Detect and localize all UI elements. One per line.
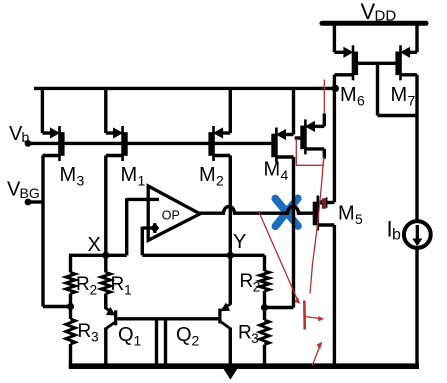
svg-text:R: R xyxy=(111,274,125,295)
label R2 right xyxy=(240,271,261,295)
wire R2-R3 left junction xyxy=(43,305,71,308)
svg-text:2: 2 xyxy=(253,280,261,295)
wire base ground vertical 1 xyxy=(155,319,158,368)
wire Y horizontal xyxy=(142,254,264,257)
label Q1 xyxy=(118,324,142,349)
wire right junction horizontal xyxy=(265,306,294,309)
wire M4 drain vertical xyxy=(292,157,295,308)
wire gate tie horizontal xyxy=(378,114,418,117)
transistor M7 xyxy=(397,45,417,80)
node Y dot xyxy=(227,252,234,259)
resistor R3 (left) xyxy=(66,319,75,344)
transistor Q1 xyxy=(106,294,116,368)
wire M1 source stub xyxy=(104,88,107,133)
svg-text:4: 4 xyxy=(281,167,289,183)
wire Vb gate rail xyxy=(28,142,275,145)
wire R1 top lead xyxy=(104,255,107,272)
VDD label xyxy=(361,0,397,25)
label X xyxy=(88,234,101,256)
wire R3 left bottom lead xyxy=(69,344,72,368)
current source Ib xyxy=(404,221,431,248)
transistor M2 xyxy=(210,126,230,161)
svg-text:OP: OP xyxy=(162,209,180,223)
red annotation: long line through M5 xyxy=(310,157,324,294)
wire R3 right top lead xyxy=(263,308,266,321)
resistor R3 (right) xyxy=(260,320,269,345)
wire cascode source stub xyxy=(323,149,326,159)
label Y xyxy=(233,231,246,253)
node right junction dot xyxy=(261,304,268,311)
node Vb terminal dot xyxy=(25,140,32,147)
label M1 xyxy=(121,164,146,189)
wire gate tie vertical xyxy=(376,63,379,115)
wire M7 drain down to Ib xyxy=(415,75,418,222)
svg-text:3: 3 xyxy=(91,330,99,345)
svg-text:1: 1 xyxy=(134,333,142,349)
wire M1 drain vertical xyxy=(104,156,107,256)
blue X deletion mark xyxy=(275,198,298,226)
wire base ground vertical 2 xyxy=(164,319,167,368)
wire R2 left bottom lead xyxy=(69,294,72,307)
svg-text:R: R xyxy=(238,323,252,344)
label Vb xyxy=(9,123,30,145)
label Ib xyxy=(387,217,402,244)
svg-text:Q: Q xyxy=(118,324,134,346)
wire op-amp output segment 2 with hop xyxy=(271,206,315,213)
wire M7 source stub xyxy=(415,23,418,52)
wire plus input vertical xyxy=(141,227,144,256)
svg-text:M: M xyxy=(264,159,281,181)
node left junction dot xyxy=(67,303,74,310)
label OP xyxy=(162,209,180,223)
label Q2 xyxy=(176,324,200,349)
wire top rail xyxy=(34,87,335,90)
svg-text:R: R xyxy=(76,274,90,295)
svg-text:3: 3 xyxy=(77,173,85,189)
op-amp plus mark xyxy=(150,223,159,233)
svg-text:M: M xyxy=(121,164,138,186)
transistor M4 xyxy=(273,128,293,163)
label VBG xyxy=(7,179,40,202)
wire cascode gate stub xyxy=(295,136,303,139)
resistor R1 xyxy=(101,273,110,294)
wire R2 left top lead xyxy=(69,255,72,272)
red-black overlap blob at M5 source arrow xyxy=(322,198,326,208)
wire X to op-amp vertical xyxy=(125,198,128,255)
transistor M5 xyxy=(315,196,335,231)
node M6 drain junction dot xyxy=(332,85,339,92)
transistor cascode xyxy=(302,119,324,154)
resistor R2 (right) xyxy=(260,271,269,291)
wire M2 drain vertical xyxy=(229,156,232,256)
svg-text:2: 2 xyxy=(192,333,200,349)
wire VBG lead xyxy=(28,200,43,203)
svg-text:X: X xyxy=(88,234,101,256)
svg-text:7: 7 xyxy=(408,93,416,109)
svg-text:V: V xyxy=(361,0,376,24)
wire Ib to ground rail xyxy=(415,248,418,366)
wire M6 drain xyxy=(333,75,336,202)
wire R2 right bottom lead xyxy=(263,291,266,308)
wire R3 left top lead xyxy=(69,307,72,320)
label R3 right xyxy=(238,323,259,347)
label M5 xyxy=(338,203,363,228)
wire M3 source stub xyxy=(41,88,44,133)
svg-text:M: M xyxy=(391,84,408,106)
wire X horizontal xyxy=(69,254,127,257)
red annotation: sketched BJT base bar xyxy=(303,301,306,330)
label R3 left xyxy=(78,321,99,345)
transistor M6 xyxy=(334,45,356,80)
node X dot xyxy=(102,252,109,259)
label M4 xyxy=(264,159,289,184)
svg-text:M: M xyxy=(340,84,357,106)
ground symbol xyxy=(223,369,237,380)
red annotation: sketched BJT emitter arrow xyxy=(305,316,324,321)
wire R1 bottom lead xyxy=(104,294,107,310)
wire op-amp inverting input (minus) xyxy=(127,198,159,201)
wire M4 source stub xyxy=(292,88,295,134)
label M3 xyxy=(60,164,85,189)
wire R3 right bottom lead xyxy=(263,345,266,369)
VDD rail xyxy=(322,21,426,26)
svg-text:R: R xyxy=(78,321,92,342)
svg-text:M: M xyxy=(60,164,77,186)
wire M6 source stub xyxy=(333,23,336,52)
svg-text:2: 2 xyxy=(216,173,224,189)
red annotation: cascode diode connection xyxy=(296,139,324,166)
wire Q1-Q2 base line xyxy=(117,317,218,320)
op-amp OP triangle xyxy=(148,186,200,240)
transistor M1 xyxy=(106,126,126,161)
svg-text:2: 2 xyxy=(90,283,98,298)
svg-text:3: 3 xyxy=(251,331,259,346)
wire ground rail xyxy=(69,363,419,369)
label M2 xyxy=(199,164,224,189)
svg-text:Y: Y xyxy=(233,231,246,253)
svg-text:Q: Q xyxy=(176,324,192,346)
wire M3 drain / VBG vertical xyxy=(41,156,44,307)
wire M5 source down xyxy=(333,225,336,366)
wire op-amp output segment 1 xyxy=(200,206,272,213)
svg-text:M: M xyxy=(199,164,216,186)
red annotation: cascode drain to mirror node xyxy=(323,80,325,114)
transistor Q2 xyxy=(220,255,230,368)
label M7 xyxy=(391,84,416,109)
wire cascode drain stub xyxy=(323,114,326,127)
label M6 xyxy=(340,84,365,109)
node VBG terminal dot xyxy=(25,199,32,206)
wire R2 right top lead xyxy=(263,255,266,271)
transistor M3 xyxy=(42,126,62,161)
svg-text:1: 1 xyxy=(124,283,132,298)
svg-text:b: b xyxy=(392,227,401,244)
svg-text:1: 1 xyxy=(138,173,146,189)
red annotation: arrow near ground xyxy=(312,342,322,366)
svg-text:5: 5 xyxy=(355,211,363,227)
svg-text:M: M xyxy=(338,203,355,225)
svg-text:6: 6 xyxy=(357,93,365,109)
svg-text:R: R xyxy=(240,271,254,292)
wire M2 source stub xyxy=(229,88,232,133)
red annotation: opamp output to sketched BJT xyxy=(259,211,301,304)
wire M6-M7 gate xyxy=(356,62,397,65)
resistor R2 (left) xyxy=(66,273,75,294)
label R2 left xyxy=(76,274,97,298)
label R1 xyxy=(111,274,132,298)
wire op-amp noninverting input xyxy=(142,226,158,229)
svg-text:BG: BG xyxy=(20,185,40,201)
